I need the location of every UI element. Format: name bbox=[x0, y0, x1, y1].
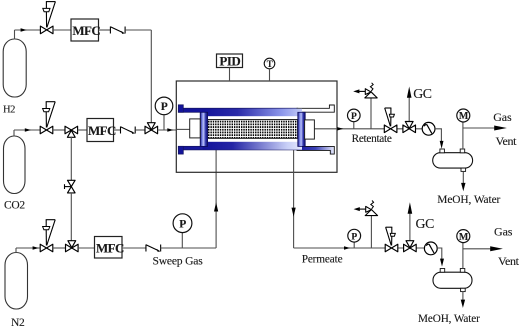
flow arrow permeate down bbox=[292, 208, 296, 217]
furnace box bbox=[176, 81, 337, 172]
svg-text:M: M bbox=[459, 232, 469, 243]
check valve CV1 bbox=[110, 27, 125, 34]
wire gas vent line top bbox=[463, 127, 495, 129]
right end fitting bbox=[305, 120, 315, 139]
svg-text:Vent: Vent bbox=[496, 134, 518, 148]
wire CV1 to corner bbox=[125, 29, 151, 31]
svg-text:Vent: Vent bbox=[498, 254, 520, 268]
flow arrow gas vent top bbox=[494, 126, 507, 131]
MFC1 box bbox=[71, 19, 100, 41]
wire cooler to vessel corner bbox=[435, 129, 441, 141]
flow arrow on H2 line bbox=[21, 28, 27, 31]
wire retentate inside furnace bbox=[314, 128, 337, 130]
wire gas vent line bottom bbox=[463, 248, 491, 250]
svg-text:CO2: CO2 bbox=[4, 199, 25, 211]
left flange bbox=[200, 112, 207, 146]
flow arrow gas vent bottom bbox=[490, 246, 503, 251]
PID controller box bbox=[217, 53, 243, 68]
svg-text:MeOH, Water: MeOH, Water bbox=[437, 194, 500, 206]
wire T stem bbox=[269, 69, 271, 81]
wire retentate line bbox=[337, 128, 422, 130]
wire PRV3 to V4 bbox=[53, 247, 66, 249]
wire CO2-N2 branch upper bbox=[70, 137, 72, 181]
sampling valve GV2 bbox=[404, 241, 417, 252]
check valve CV3 bbox=[146, 245, 161, 252]
pressure gauge PG3 stem bbox=[353, 121, 355, 129]
pressure gauge PG4 stem bbox=[353, 242, 355, 248]
pressure regulator PRV2 bbox=[40, 102, 55, 134]
wire GC2 riser bbox=[409, 214, 411, 244]
svg-text:P: P bbox=[351, 112, 357, 122]
back pressure regulator BPR1 bbox=[384, 108, 397, 133]
flow arrow into vessel VS2 bbox=[440, 259, 444, 267]
wire H2 down leg bbox=[150, 30, 152, 124]
relief valve RV2 bbox=[354, 201, 378, 216]
catalyst bed bbox=[207, 120, 297, 139]
wire feed line inside furnace bbox=[176, 128, 190, 130]
wire M2 riser bbox=[462, 243, 464, 269]
cooler CL2 bbox=[424, 242, 437, 255]
relief valve RV1 bbox=[353, 83, 377, 98]
flow arrow sweep up bbox=[214, 202, 218, 211]
svg-text:Retentate: Retentate bbox=[352, 133, 392, 145]
wire V4 to MFC3 bbox=[78, 247, 94, 249]
svg-text:MFC: MFC bbox=[88, 123, 116, 138]
left end fitting bbox=[190, 119, 201, 138]
right flange bbox=[298, 112, 305, 146]
svg-text:M: M bbox=[459, 111, 469, 122]
svg-text:N2: N2 bbox=[11, 317, 25, 329]
flow arrow into vessel VS1 bbox=[440, 141, 444, 149]
pressure gauge PG4 bbox=[348, 229, 361, 242]
wire PRV2 to V1 bbox=[53, 129, 65, 131]
pressure gauge PG1 stem bbox=[163, 115, 165, 131]
wire PID stem bbox=[229, 68, 231, 82]
wire H2 line bbox=[15, 29, 41, 31]
gas meter M1 bbox=[457, 109, 470, 122]
svg-text:Gas: Gas bbox=[494, 224, 513, 238]
check valve CV2 bbox=[121, 127, 136, 134]
svg-text:P: P bbox=[351, 232, 357, 242]
membrane shell top wall bbox=[178, 105, 334, 113]
wire sweep line bbox=[161, 247, 217, 249]
wire GC1 riser bbox=[408, 98, 410, 125]
membrane shell main bottom wall bbox=[203, 142, 303, 150]
svg-text:MeOH, Water: MeOH, Water bbox=[418, 313, 480, 325]
flow arrow VS1 drain bbox=[461, 183, 465, 191]
wire permeate drop bbox=[293, 150, 295, 248]
flow arrow permeate right bbox=[344, 246, 350, 249]
svg-text:P: P bbox=[161, 101, 168, 113]
three-way valve V2 (H2 join) bbox=[145, 123, 158, 134]
H2 cylinder bbox=[3, 30, 26, 97]
wire CO2 line bbox=[14, 129, 40, 131]
wire MFC2 to CV2 bbox=[114, 129, 121, 131]
svg-text:T: T bbox=[267, 59, 273, 69]
valve V3 on branch bbox=[65, 180, 76, 193]
wire VS2 drain bbox=[462, 292, 464, 301]
wire PRV1 to MFC1 bbox=[53, 29, 71, 31]
svg-text:PID: PID bbox=[219, 53, 240, 68]
flow arrow GC2 bbox=[408, 202, 413, 214]
svg-text:MFC: MFC bbox=[72, 23, 100, 38]
wire sweep riser bbox=[215, 150, 217, 249]
wire V2 to furnace bbox=[158, 129, 177, 131]
svg-text:GC: GC bbox=[416, 216, 435, 231]
back pressure regulator BPR2 bbox=[385, 227, 398, 252]
wire M1 riser bbox=[462, 122, 464, 149]
wire relief valve RV1 stem bbox=[370, 98, 372, 129]
separator vessel VS1 bbox=[433, 149, 473, 171]
svg-text:H2: H2 bbox=[3, 104, 15, 115]
pressure gauge PG2 stem bbox=[181, 233, 183, 248]
wire MFC1 to CV1 bbox=[99, 29, 111, 31]
gas meter M2 bbox=[457, 230, 470, 243]
pressure gauge PG1 bbox=[155, 97, 173, 115]
wire CO2-N2 branch lower bbox=[70, 193, 72, 242]
CO2 cylinder bbox=[4, 130, 26, 194]
membrane shell bottom wall bbox=[178, 146, 334, 154]
membrane shell main top wall bbox=[203, 109, 303, 117]
pressure regulator PRV3 bbox=[40, 220, 55, 252]
svg-text:P: P bbox=[179, 218, 186, 230]
flow arrow VS2 drain bbox=[461, 300, 465, 308]
wire permeate line bbox=[294, 247, 425, 249]
pressure gauge PG3 bbox=[348, 109, 361, 122]
pressure regulator PRV1 bbox=[40, 2, 55, 34]
N2 cylinder bbox=[5, 248, 28, 309]
separator vessel VS2 bbox=[433, 269, 472, 292]
wire MFC3 to CV3 bbox=[122, 247, 146, 249]
sampling valve GV1 bbox=[403, 122, 416, 133]
flow arrow on N2 line bbox=[33, 246, 39, 249]
svg-text:Gas: Gas bbox=[493, 110, 512, 124]
wire V1 to MFC2 bbox=[78, 129, 87, 131]
flow arrow GC1 bbox=[407, 87, 412, 98]
three-way valve V1 bbox=[65, 126, 78, 137]
flow arrow on CO2 line bbox=[25, 128, 31, 131]
pressure gauge PG2 bbox=[173, 214, 192, 233]
cooler CL1 bbox=[422, 122, 435, 135]
svg-text:GC: GC bbox=[413, 86, 432, 101]
svg-text:Sweep Gas: Sweep Gas bbox=[153, 254, 204, 267]
flow arrow retentate bbox=[337, 127, 343, 130]
svg-text:MFC: MFC bbox=[96, 240, 124, 255]
flow arrow feed into furnace bbox=[167, 128, 173, 131]
wire N2 line bbox=[16, 247, 40, 249]
wire cooler to vessel corner bottom bbox=[437, 248, 442, 260]
wire VS1 drain bbox=[462, 171, 464, 183]
MFC2 box bbox=[87, 119, 116, 142]
three-way valve V4 bbox=[66, 241, 79, 252]
wire relief valve RV2 stem bbox=[370, 216, 372, 249]
svg-text:Permeate: Permeate bbox=[302, 254, 343, 266]
thermocouple T circle bbox=[264, 58, 275, 69]
MFC3 box bbox=[95, 237, 125, 259]
wire CV2 to V2 bbox=[135, 129, 145, 131]
